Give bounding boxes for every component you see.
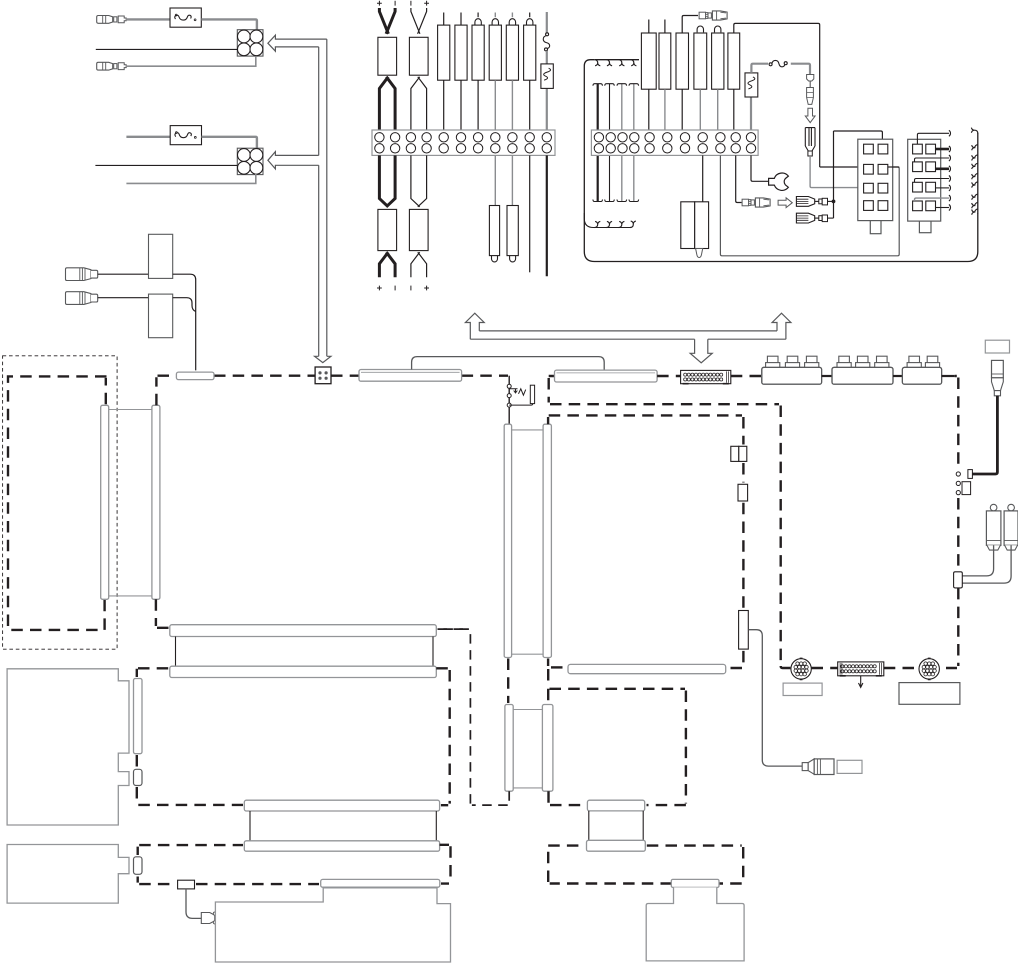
polarity labels: [377, 1, 382, 6]
wire: [529, 155, 531, 272]
arrow right: [778, 198, 792, 208]
wire: [202, 137, 257, 148]
CD changer box: [7, 845, 129, 904]
bullet connector J4: [742, 199, 749, 206]
dashed around head unit: [137, 668, 243, 805]
trunk bottom bar: [551, 666, 566, 668]
bullet connector J2: [97, 62, 113, 70]
noise filter 2: [149, 294, 173, 338]
inline connector (pre-out): [176, 372, 214, 380]
wire to amp remote: [720, 155, 899, 255]
bullet to changer: [201, 913, 214, 924]
junction dot: [832, 200, 836, 204]
head unit small connector: [134, 769, 143, 785]
dashed rect G: [138, 845, 319, 884]
wire: [96, 48, 238, 50]
arrow to P1: [268, 35, 327, 51]
dashed rect E: [548, 846, 743, 884]
glovebox dashed rect: [549, 415, 744, 668]
gray jumper over: [412, 357, 605, 371]
harness boundary top with grommets: [594, 59, 639, 61]
inline connector (IP harness 2): [555, 370, 658, 382]
wire: [127, 56, 256, 66]
antenna jack label: [985, 340, 1009, 353]
fuse F1: [170, 8, 201, 27]
wire row2 out: [888, 166, 899, 168]
wire to main unit: [734, 23, 820, 167]
round connector C1: [791, 659, 811, 679]
trunk B lower dashes: [442, 629, 510, 805]
aux label: [837, 760, 862, 773]
head unit box: [7, 669, 129, 825]
rear deck dashed rect D: [548, 689, 686, 805]
wire: [126, 174, 255, 184]
aux wire: [748, 630, 802, 766]
label: [899, 683, 960, 705]
connector block U2: [908, 139, 941, 221]
parking brake switch symbol: [509, 389, 517, 393]
RCA plug 1: [66, 268, 91, 281]
RCA junction: [954, 572, 963, 588]
squiggle: [769, 63, 772, 66]
link: [893, 375, 902, 377]
wire: [127, 18, 170, 20]
wire w/ tag: [511, 13, 513, 18]
wire w/ tag: [443, 13, 445, 26]
wire: [98, 273, 149, 275]
antenna plug: [992, 360, 1004, 377]
wire w/ tag: [715, 26, 721, 32]
quad connector P1: [237, 30, 263, 56]
cable trunk L bars: [101, 405, 109, 599]
wire: [95, 164, 237, 166]
RCA plug down R: [1008, 504, 1015, 511]
speaker pair wire FL lower: [379, 77, 395, 130]
dash I-beam2 right: [440, 845, 451, 884]
wire to U1: [810, 156, 864, 188]
speaker pair wire FL: [379, 8, 395, 34]
wire tag: [676, 33, 689, 89]
inner grommet curve: [584, 213, 630, 228]
RCA wires: [962, 545, 993, 576]
inline fuse bottom: [178, 880, 195, 889]
dash from trunk A to I-beam1: [156, 599, 169, 628]
terminal strip TB1: [372, 130, 555, 155]
fuse F3: [541, 64, 553, 89]
cable trunk B bars: [507, 659, 509, 704]
dash corner to IP rect: [549, 376, 781, 667]
antenna inline connector: [968, 470, 973, 479]
connector small: [738, 484, 748, 501]
polarity labels: [377, 286, 382, 291]
wrench symbol: [769, 173, 789, 190]
label: [783, 683, 822, 695]
wire w/ tag below: [702, 155, 704, 201]
link: [942, 375, 955, 377]
RCA plug down L: [990, 504, 997, 511]
CD changer connector: [134, 857, 143, 875]
wire: [173, 298, 196, 312]
subwoofer box: [671, 879, 719, 887]
aux plug: [802, 763, 808, 771]
head unit dashed outline: [8, 376, 107, 630]
speaker pair wire FR lower: [411, 77, 427, 130]
harness boundary left: [584, 60, 594, 252]
small arrow down: [805, 108, 815, 122]
wire to bullet: [682, 16, 698, 34]
antenna cable: [972, 396, 997, 474]
round connector C2: [919, 659, 939, 679]
wire label tag: [409, 37, 428, 75]
wire: [126, 136, 170, 138]
wire w/ tag: [664, 20, 666, 34]
wire label tag: [378, 209, 397, 250]
aux connector tall: [739, 611, 749, 650]
wire to bullet J4: [736, 155, 742, 202]
dash I-beam1 right: [438, 628, 469, 630]
ISO connector I-beam 1: [170, 625, 437, 637]
control knob block 2: [832, 367, 893, 384]
dash-dot outline: [3, 356, 118, 649]
noise filter 1: [149, 234, 173, 278]
spade terminal T1: [796, 197, 814, 207]
parking brake line: [508, 376, 510, 425]
wire w/ tag: [529, 13, 531, 18]
accessory wire with fuse: [546, 12, 548, 33]
wire w/ tag: [648, 20, 650, 34]
spade terminal T2: [796, 213, 814, 223]
wire w/ tag: [494, 13, 496, 18]
inline connector vertical: [807, 75, 814, 82]
wire: [201, 19, 257, 29]
harness boundary right with grommets: [977, 133, 979, 214]
dash: [781, 666, 919, 668]
head unit connector bar: [134, 679, 143, 754]
speaker pair wire RL below: [379, 155, 395, 206]
U2 output wires: [917, 133, 949, 144]
battery wire with fuse: [750, 97, 752, 130]
speaker pair wire RR below: [411, 155, 427, 206]
harness boundary bottom: [584, 214, 978, 262]
speaker coupler (center): [587, 800, 644, 811]
wire label tag: [409, 209, 428, 250]
wire: [98, 297, 149, 299]
ground wire: [546, 155, 548, 276]
wire to bullet: [186, 889, 201, 919]
wire: [173, 274, 196, 370]
speaker feed wires: [597, 84, 599, 202]
changer magazine box: [215, 888, 450, 962]
wire junction vertical: [834, 131, 883, 218]
wire w/ tag: [697, 26, 703, 32]
main harness spine: [156, 376, 508, 406]
arrow down small: [859, 676, 863, 688]
control knob block 1: [762, 367, 822, 384]
link: [822, 375, 832, 377]
wire row2: [820, 166, 864, 168]
speaker pair wire FR: [411, 8, 427, 34]
ISO connector I-beam 2: [244, 800, 439, 811]
bullet connector J3: [699, 12, 706, 19]
trunk left dash: [547, 659, 550, 688]
quad connector P2: [237, 148, 263, 174]
wire to wrench: [751, 155, 769, 181]
wire w/ tag below: [511, 155, 513, 205]
wire label tag: [378, 37, 397, 75]
wire w/ tag: [460, 13, 462, 26]
arrow to P2: [268, 152, 319, 169]
spine dash: [657, 375, 762, 377]
long bar bottom: [321, 879, 440, 887]
arrow shaft: [319, 39, 327, 356]
wire tag: [728, 33, 740, 89]
connector block U1: [858, 139, 893, 220]
terminal strip TB2: [591, 130, 758, 155]
multi-pin strip B: [838, 662, 884, 676]
RCA plug 2: [66, 292, 91, 305]
control knob block 3: [902, 367, 941, 384]
wire w/ tag: [477, 13, 479, 18]
fuse F2: [170, 126, 201, 145]
quad-dot connector: [315, 367, 331, 384]
connector 2sq: [731, 446, 739, 461]
arrow head down: [315, 356, 331, 362]
cable trunk A bars: [504, 424, 511, 657]
wire w/ tag below: [494, 155, 496, 205]
bullet connector J1: [97, 16, 113, 24]
spade connector vertical: [805, 128, 815, 146]
hollow pipe with arrows: [470, 331, 786, 339]
inline connector (IP harness 1): [359, 370, 462, 382]
multi-pin connector strip: [681, 370, 731, 383]
dashed trunk right edge: [946, 376, 958, 668]
